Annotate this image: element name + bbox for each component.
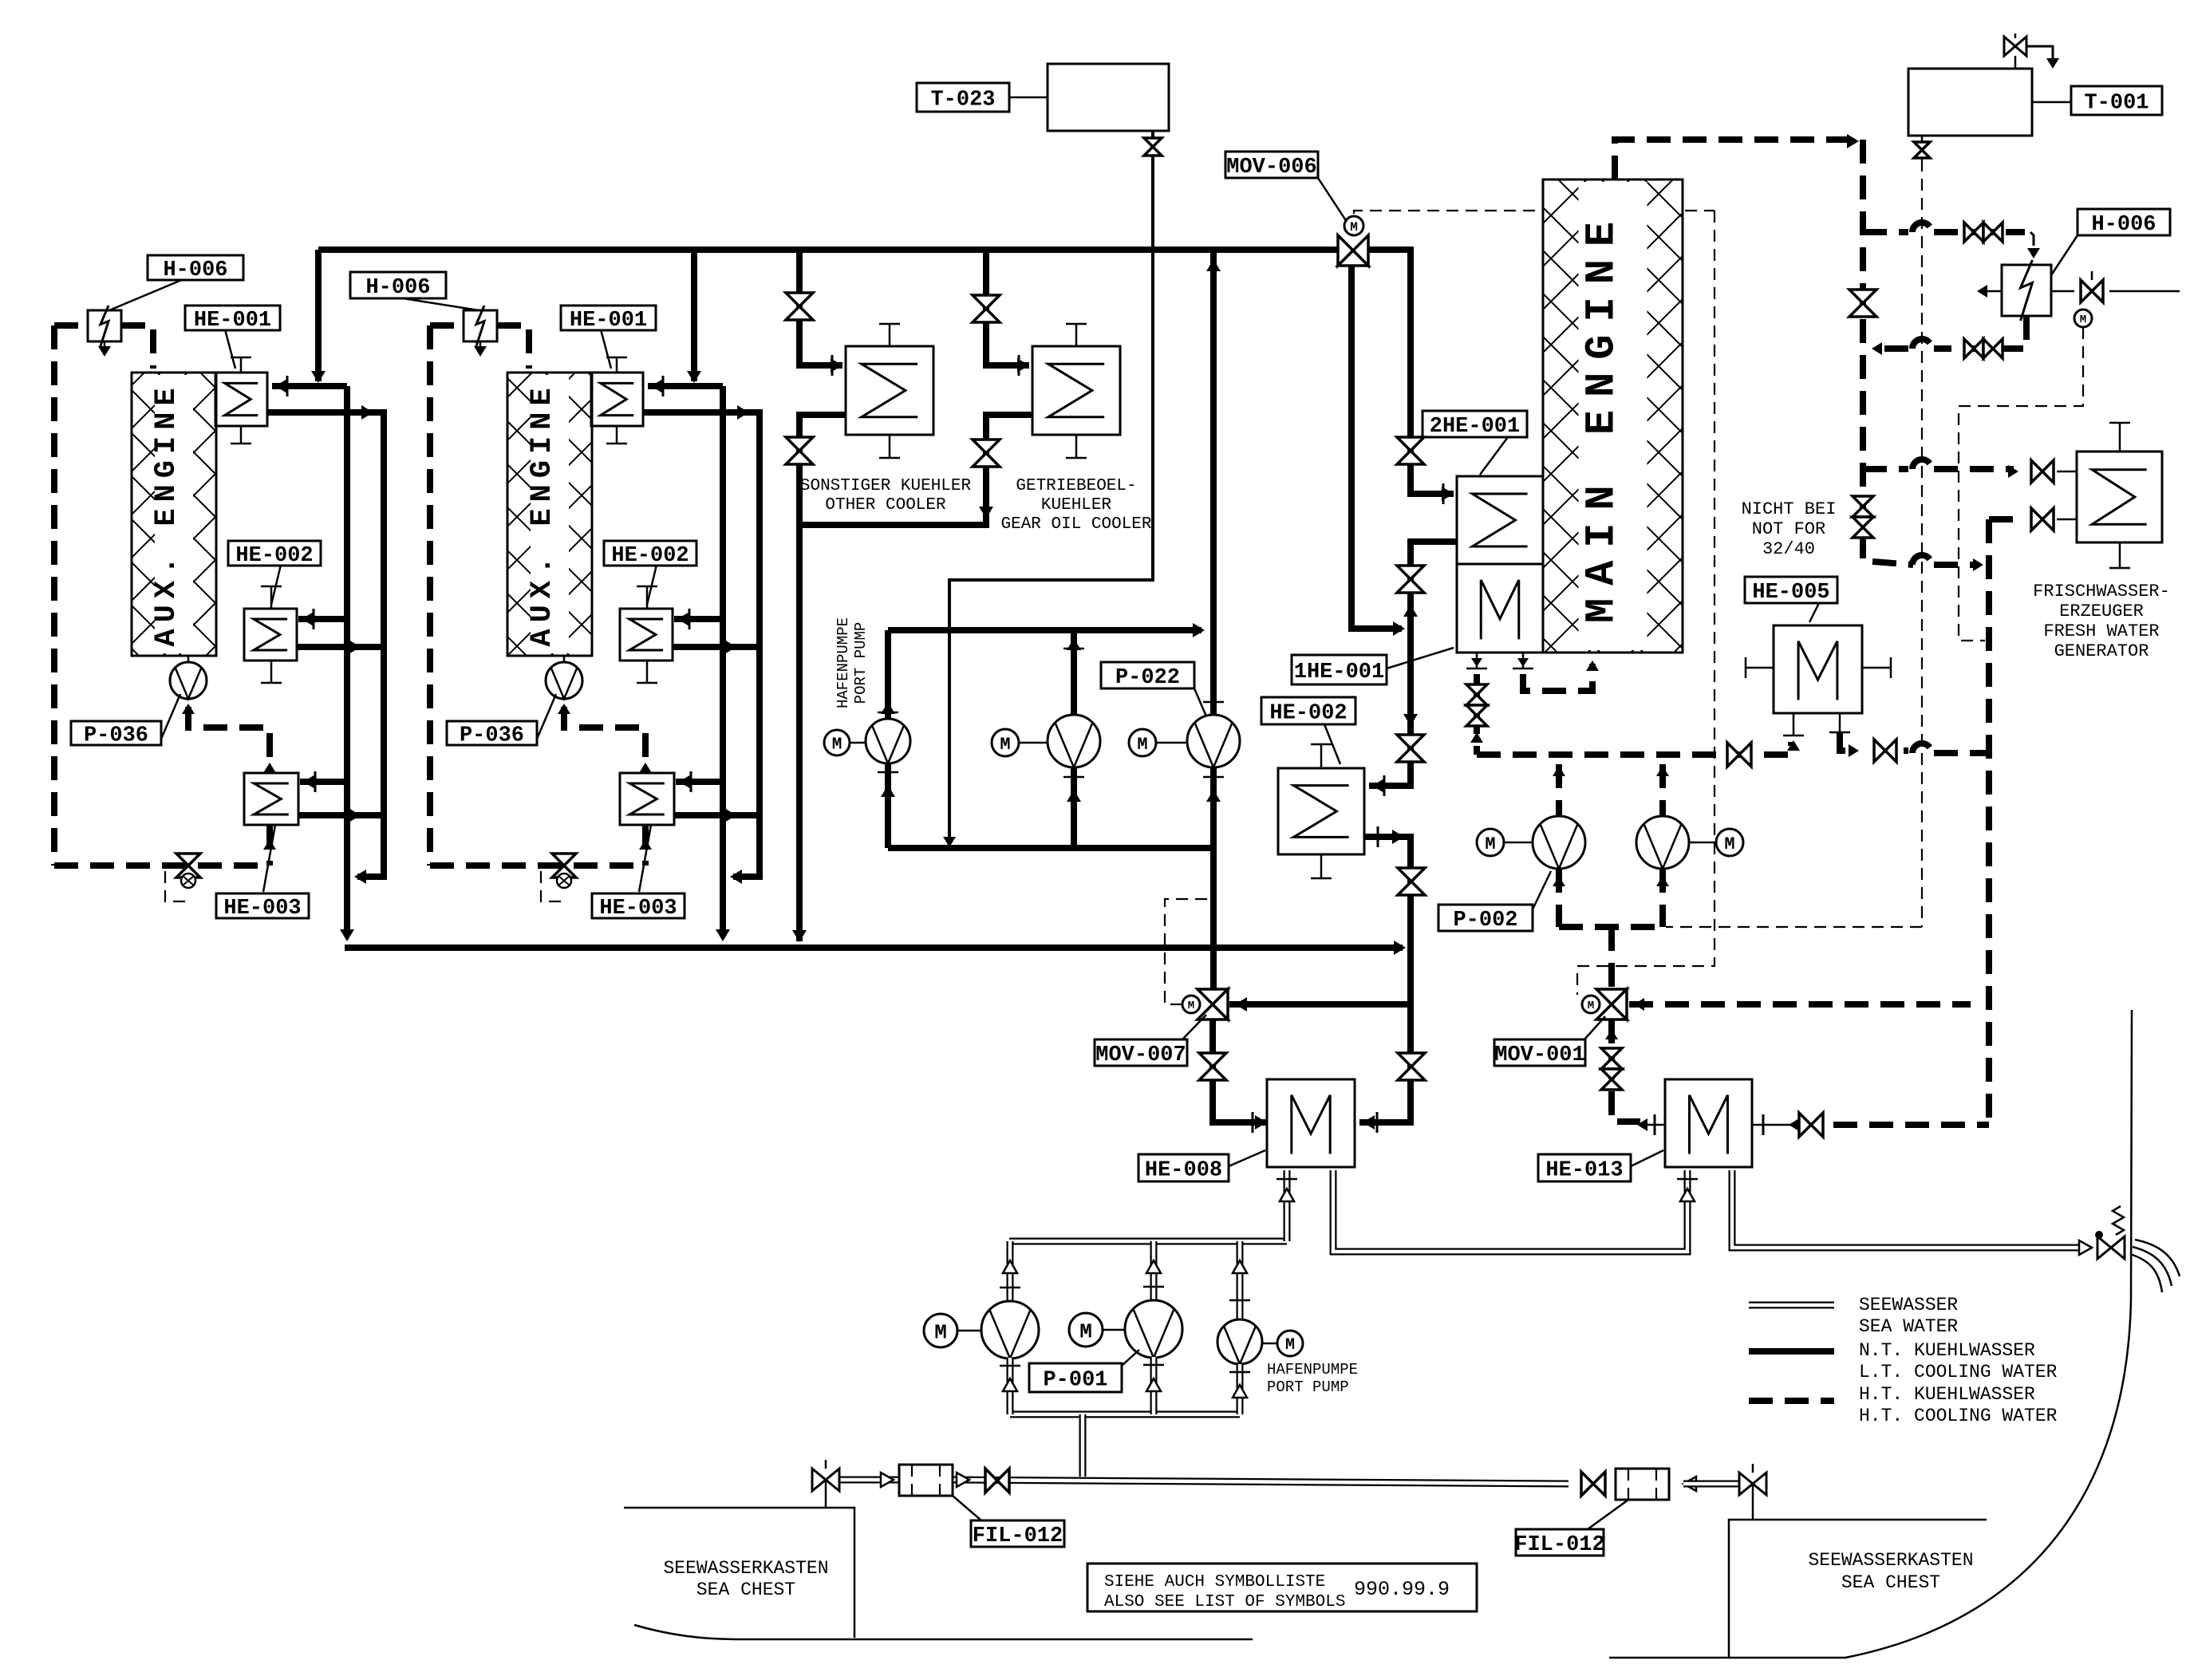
valve sea main left	[985, 1469, 997, 1493]
heat exchanger HE-002 (aux 2)	[620, 609, 673, 661]
label H-006 (right)	[2051, 235, 2078, 275]
label T-001	[2032, 101, 2071, 104]
svg-text:ERZEUGER: ERZEUGER	[2059, 601, 2144, 621]
valve under T-001	[1921, 136, 1924, 160]
wire sea water bottom main left	[839, 1477, 899, 1484]
wire H.T. FWG column x=2493	[1986, 519, 1992, 1125]
pump P-002 no.1	[1533, 816, 1585, 869]
wire HE-008 sea outlet to HE-013	[1333, 1170, 1687, 1252]
wire H.T. header down x=2335	[1863, 140, 1913, 565]
wire HE-008 sea inlet stub	[1284, 1170, 1291, 1241]
svg-text:P-001: P-001	[1043, 1369, 1107, 1393]
svg-text:GENERATOR: GENERATOR	[2054, 641, 2149, 661]
wire suction drop to sea main	[1079, 1414, 1087, 1477]
label H-006 (aux 1)	[109, 279, 183, 310]
valve on other-cooler outlet	[786, 437, 813, 451]
svg-text:MAIN ENGINE: MAIN ENGINE	[1579, 209, 1626, 623]
valves double under MOV-001	[1601, 1048, 1622, 1059]
svg-text:M: M	[1188, 1000, 1194, 1012]
wire P-022 suction	[1210, 767, 1217, 848]
cooler SONSTIGER KUEHLER / OTHER COOLER	[846, 346, 933, 435]
wire x=1768 down to HE-002	[1369, 629, 1411, 786]
svg-text:AUX. ENGINE: AUX. ENGINE	[526, 381, 559, 646]
svg-text:HE-002: HE-002	[1269, 702, 1347, 726]
wire HE-001 outlet aux2	[643, 412, 760, 877]
valve pair on H-006 feed	[1964, 223, 1974, 242]
svg-text:M: M	[1724, 834, 1734, 854]
svg-text:MOV-006: MOV-006	[1226, 156, 1316, 179]
svg-text:HE-003: HE-003	[599, 897, 677, 921]
wire P-022 discharge riser to main	[1210, 250, 1217, 715]
wire L.T. main return header y=1188	[345, 945, 1403, 951]
motor M port pump LT	[824, 730, 850, 755]
svg-text:MOV-007: MOV-007	[1095, 1043, 1186, 1067]
sea chest suction valve right	[1739, 1473, 1753, 1495]
wire T-001 make-up thin dashed	[1921, 160, 1923, 927]
svg-text:M: M	[1137, 735, 1147, 755]
label 2HE-001	[1480, 437, 1508, 475]
svg-text:P-022: P-022	[1115, 666, 1180, 690]
wire FWG lower valve feed	[1989, 516, 2014, 523]
wire MOV-001 down to HE-013	[1612, 1019, 1640, 1122]
wire other-cooler feed x=1002	[799, 250, 842, 365]
wire middle pump suction	[1071, 767, 1077, 848]
wire MOV-006 branch down	[1351, 266, 1402, 629]
svg-text:HE-013: HE-013	[1545, 1159, 1623, 1183]
wire HE-002 outlet aux2	[673, 644, 760, 650]
wire tank make-up drop x=1445	[949, 250, 1153, 843]
wire P-022 column down to MOV-007	[1210, 848, 1217, 989]
wire H.T. pump suction dashed aux2	[558, 704, 570, 714]
wire HE-002 inlet aux2	[674, 616, 723, 622]
wire P-002 discharge risers	[1556, 764, 1562, 816]
wire H.T. dashed loop left vertical AUX1	[54, 322, 86, 329]
pump P-001 port pump sea water	[1237, 1241, 1244, 1319]
heat exchanger HE-002 (L.T. central)	[1278, 768, 1364, 854]
svg-text:GETRIEBEOEL-: GETRIEBEOEL-	[1016, 477, 1136, 495]
legend sea water line	[1749, 1302, 1834, 1309]
label P-002	[1533, 871, 1551, 909]
svg-text:SEA WATER: SEA WATER	[1859, 1316, 1958, 1337]
svg-text:1HE-001: 1HE-001	[1294, 661, 1384, 684]
label P-022	[1194, 688, 1206, 716]
wire 2HE-001 inlet from main	[1411, 250, 1454, 494]
label HE-013	[1631, 1150, 1663, 1166]
valve x=1768 y=1101	[1398, 868, 1425, 881]
valve above 2HE-001 inlet	[1397, 437, 1424, 451]
label HE-001 (aux 1)	[225, 329, 235, 369]
svg-text:HAFENPUMPE: HAFENPUMPE	[1267, 1361, 1358, 1378]
motor M MOV-006	[1344, 216, 1363, 235]
svg-text:FRISCHWASSER-: FRISCHWASSER-	[2033, 582, 2170, 601]
svg-text:KUEHLER: KUEHLER	[1041, 496, 1112, 515]
svg-text:M: M	[1285, 1336, 1295, 1355]
label HE-008	[1229, 1150, 1265, 1166]
spring symbol overboard valve	[2113, 1206, 2124, 1235]
valve x=1768 y=1335	[1398, 1053, 1425, 1067]
heat exchanger HE-003 (aux 2)	[620, 773, 674, 825]
svg-text:SEA CHEST: SEA CHEST	[1841, 1572, 1940, 1593]
svg-text:MOV-001: MOV-001	[1494, 1043, 1584, 1067]
motor M middle pump	[992, 729, 1019, 756]
wire dashed stub near thermostat aux2	[541, 871, 561, 901]
note box SIEHE AUCH SYMBOLLISTE	[1087, 1564, 1477, 1611]
motor M MOV-001	[1582, 996, 1600, 1013]
wire port pump suction	[885, 763, 891, 848]
wire MOV-007 control dashed box	[1165, 899, 1209, 1004]
svg-text:H-006: H-006	[2091, 213, 2156, 237]
valve pair on H-006 return	[1964, 339, 1974, 358]
svg-text:PORT PUMP: PORT PUMP	[852, 622, 870, 704]
sea chest suction valve left	[826, 1469, 839, 1491]
wire HE-002 outlet down to MOV-007 level	[1364, 837, 1411, 1004]
sea chest left	[624, 1508, 854, 1638]
heat exchanger HE-005	[1774, 625, 1862, 713]
pump P-022	[1187, 715, 1240, 767]
svg-text:SEEWASSERKASTEN: SEEWASSERKASTEN	[663, 1558, 828, 1579]
pump P-002 no.2	[1636, 816, 1689, 869]
wire gear-cooler feed x=1236	[986, 250, 1029, 365]
motor M steam valve	[2074, 310, 2092, 327]
heat exchanger HE-001 (aux 2)	[591, 373, 643, 426]
label HE-001 (aux 2)	[601, 329, 611, 369]
wire L.T. supply drop x=870	[691, 250, 697, 381]
label P-001	[1122, 1350, 1139, 1366]
valves double on 1HE-001 drain	[1466, 684, 1487, 695]
valve under tank T-023	[1151, 131, 1154, 250]
wire H.T. 1HE-001 to engine bottom	[1523, 664, 1592, 691]
wire HE-001 inlet aux1	[272, 383, 347, 389]
wire H-006 steam side	[1979, 290, 2002, 293]
wire HE-013 left connection	[1640, 1124, 1665, 1126]
wire L.T. supply drop x=399	[315, 250, 322, 381]
svg-text:P-036: P-036	[84, 724, 148, 748]
label MOV-007	[1182, 1015, 1206, 1039]
wire control dashed x=2149	[1577, 211, 1715, 995]
heat exchanger 1HE-001	[1457, 564, 1543, 653]
wire gear-cooler outlet	[799, 415, 1032, 525]
wire H.T. 1HE-001 drain down	[1474, 674, 1480, 755]
wire control dashed from H-006 valve	[1959, 327, 2083, 641]
wire H.T. HE-003 bottom dashed aux2	[642, 825, 649, 866]
motor M P-002 no.2	[1716, 829, 1743, 856]
valve MOV-007	[1198, 989, 1228, 1004]
svg-text:HE-008: HE-008	[1145, 1159, 1222, 1183]
label FIL-012 left	[953, 1496, 981, 1520]
svg-text:PORT PUMP: PORT PUMP	[1267, 1378, 1349, 1396]
wire dashed manifold down to MOV-001	[1608, 927, 1615, 989]
wire HE-002 outlet aux1	[297, 644, 384, 650]
wire HE-001 inlet aux2	[648, 383, 723, 389]
wire dashed heater outlet to engine top AUX1	[121, 325, 153, 369]
wire dashed stub near thermostat aux1	[165, 871, 185, 901]
pump P-036 (aux 1)	[187, 656, 190, 663]
wire HE-013 right connection	[1752, 1124, 1792, 1126]
tank T-023	[1048, 64, 1169, 131]
svg-text:M: M	[2080, 314, 2086, 326]
svg-text:HE-001: HE-001	[194, 309, 271, 333]
svg-text:M: M	[1588, 1000, 1594, 1012]
wire P-001 suction manifold	[1010, 1411, 1240, 1418]
svg-text:SEEWASSERKASTEN: SEEWASSERKASTEN	[1808, 1550, 1973, 1571]
wire P-002 suction manifold dashed	[1556, 869, 1562, 927]
wire H.T. HE-003 bottom dashed aux1	[266, 825, 273, 866]
valve on 2HE-001 outlet leg	[1397, 566, 1424, 579]
svg-text:SEEWASSER: SEEWASSER	[1859, 1295, 1958, 1315]
wire dashed heater outlet to engine top AUX2	[497, 325, 529, 369]
svg-text:H.T. COOLING WATER: H.T. COOLING WATER	[1859, 1406, 2058, 1426]
wire HE-003 inlet aux1	[300, 779, 347, 785]
svg-text:H.T. KUEHLWASSER: H.T. KUEHLWASSER	[1859, 1384, 2035, 1405]
heat exchanger HE-002 (aux 1)	[244, 609, 297, 661]
svg-text:HE-002: HE-002	[611, 544, 689, 568]
wire L.T. main supply header y=313	[318, 246, 1337, 253]
wire H.T. return main aux2	[430, 862, 645, 869]
label MOV-006	[1318, 178, 1347, 222]
pump P-001 no.1 sea water	[1007, 1241, 1014, 1302]
wire H.T. return main aux1	[54, 862, 270, 869]
overboard spray curves	[2135, 1240, 2180, 1276]
svg-text:P-002: P-002	[1453, 909, 1517, 933]
svg-text:T-023: T-023	[930, 89, 995, 112]
label H-006 (aux 2)	[403, 298, 479, 310]
valve x=2335 y=380	[1849, 290, 1876, 303]
wire x=1768 down to HE-008	[1359, 1004, 1411, 1122]
wire middle pump discharge	[1071, 630, 1077, 715]
svg-text:M: M	[934, 1320, 947, 1344]
thermostatic valve (aux 1)	[176, 854, 200, 866]
wire L.T. pump suction manifold	[888, 845, 1213, 851]
motor M P-001 no.1	[924, 1314, 957, 1347]
wire H.T. x=2335 foot to FWG column	[1912, 555, 1932, 565]
relief valve on T-001	[2014, 56, 2017, 69]
legend L.T. line	[1749, 1348, 1834, 1355]
heater H-006 (right)	[2002, 265, 2051, 316]
svg-text:HE-005: HE-005	[1752, 581, 1829, 605]
label 1HE-001	[1387, 648, 1454, 668]
svg-text:M: M	[1485, 834, 1495, 854]
motor M port pump sea	[1277, 1331, 1303, 1356]
svg-text:SIEHE AUCH SYMBOLLISTE: SIEHE AUCH SYMBOLLISTE	[1104, 1573, 1325, 1591]
heater H-006 (aux engine 2)	[464, 310, 497, 341]
main engine block	[1543, 179, 1683, 653]
wire MOV-006 control dashed	[1354, 211, 1540, 214]
wire MOV-007 down to HE-008	[1213, 1019, 1267, 1122]
svg-text:FRESH WATER: FRESH WATER	[2043, 621, 2159, 641]
wire HE-002 inlet aux1	[298, 616, 347, 622]
wire H-006 right outlet return	[1934, 316, 2026, 349]
heat exchanger 2HE-001	[1457, 476, 1543, 564]
pump port pump (L.T.)	[866, 719, 910, 763]
valve x=1768 y=936	[1397, 735, 1424, 748]
wire other-cooler outlet	[799, 415, 846, 941]
svg-text:2HE-001: 2HE-001	[1430, 415, 1520, 439]
wire H.T. pump suction dashed aux1	[182, 704, 195, 714]
overboard discharge valve	[2097, 1236, 2111, 1259]
motor M P-022	[1129, 729, 1156, 756]
valve steam H-006	[2081, 280, 2092, 302]
svg-text:HE-002: HE-002	[235, 544, 313, 568]
label HE-003 (aux 1)	[263, 825, 275, 892]
valves double x=2335 y=648	[1853, 496, 1873, 507]
heat exchanger HE-003 (aux 1)	[244, 773, 298, 825]
svg-text:990.99.9: 990.99.9	[1354, 1578, 1450, 1601]
motor M P-001 no.2	[1069, 1313, 1103, 1347]
svg-text:P-036: P-036	[460, 724, 524, 748]
aux engine block 2	[507, 373, 592, 656]
motor M MOV-007	[1182, 996, 1200, 1013]
pump P-036 (aux 2)	[563, 656, 566, 663]
label MOV-001	[1584, 1016, 1605, 1039]
heat exchanger HE-001 (aux 1)	[215, 373, 267, 426]
label P-036 (aux 1)	[160, 694, 180, 743]
svg-text:GEAR OIL COOLER: GEAR OIL COOLER	[1000, 515, 1151, 534]
svg-text:AUX. ENGINE: AUX. ENGINE	[150, 381, 183, 646]
label T-023	[1009, 97, 1048, 99]
label HE-002 (central)	[1324, 724, 1340, 764]
svg-text:L.T. COOLING WATER: L.T. COOLING WATER	[1859, 1362, 2058, 1382]
fresh water generator	[2077, 452, 2162, 542]
svg-text:N.T. KUEHLWASSER: N.T. KUEHLWASSER	[1859, 1340, 2035, 1361]
svg-text:OTHER COOLER: OTHER COOLER	[825, 496, 946, 515]
svg-text:H-006: H-006	[163, 258, 227, 282]
svg-text:SONSTIGER KUEHLER: SONSTIGER KUEHLER	[800, 477, 972, 495]
valve MOV-001	[1596, 989, 1627, 1004]
label HE-005	[1809, 603, 1819, 622]
pump L.T. middle pump	[1048, 715, 1100, 767]
svg-text:NOT FOR: NOT FOR	[1752, 519, 1825, 539]
wire H.T. main engine top outlet	[1615, 140, 1855, 179]
valve on other-cooler feed	[786, 293, 813, 306]
svg-text:FIL-012: FIL-012	[973, 1524, 1063, 1548]
wire H.T. branch to heater H-006 right	[1863, 229, 1908, 235]
1HE-001 drain stubs	[1476, 653, 1478, 668]
heater H-006 (aux engine 1)	[88, 310, 121, 341]
valve on gear-cooler outlet	[973, 440, 1000, 453]
svg-text:H-006: H-006	[365, 276, 430, 300]
valve on H.T. main	[1727, 743, 1739, 767]
valve right of HE-013	[1799, 1113, 1811, 1137]
label HE-002 (aux 2)	[647, 565, 657, 605]
heat exchanger HE-008	[1267, 1079, 1355, 1167]
wire 2HE-001 outlet down	[1411, 542, 1457, 629]
svg-text:ALSO SEE LIST OF SYMBOLS: ALSO SEE LIST OF SYMBOLS	[1104, 1593, 1345, 1611]
valve sea main right	[1581, 1472, 1593, 1496]
svg-text:NICHT BEI: NICHT BEI	[1742, 499, 1837, 519]
wire sea water supply main	[1009, 1238, 1287, 1245]
wire H.T. HE-005 right to FWG column	[1840, 732, 1851, 751]
wire HE-001 outlet aux1	[267, 412, 384, 877]
valve FWG upper	[2031, 460, 2042, 483]
legend H.T. line	[1749, 1398, 1834, 1404]
wire inner supply vertical aux2	[720, 386, 726, 937]
wire HE-003 outlet aux2	[674, 812, 760, 818]
motor M P-002 no.1	[1477, 829, 1504, 856]
valve MOV-006	[1338, 235, 1353, 266]
svg-text:M: M	[1079, 1319, 1092, 1343]
svg-text:32/40: 32/40	[1762, 539, 1815, 559]
aux engine block 1	[132, 373, 216, 656]
wire H.T. dashed loop left vertical AUX2	[430, 322, 462, 329]
svg-text:SEA CHEST: SEA CHEST	[696, 1579, 795, 1600]
heat exchanger HE-013	[1665, 1079, 1752, 1167]
svg-text:HE-003: HE-003	[223, 897, 301, 921]
label FIL-012 right	[1588, 1500, 1628, 1529]
wire HE-003 inlet aux2	[676, 779, 723, 785]
wire sea water bottom main right	[1621, 1481, 1669, 1488]
valve FWG lower	[2031, 508, 2042, 530]
cooler GETRIEBEOEL-KUEHLER / GEAR OIL COOLER	[1032, 346, 1120, 435]
svg-text:M: M	[1000, 735, 1010, 755]
svg-text:T-001: T-001	[2084, 92, 2149, 116]
thermostatic valve (aux 2)	[552, 854, 576, 866]
svg-text:M: M	[832, 736, 842, 755]
wire H.T. main to HE-005 left stub	[1477, 742, 1791, 755]
wire port pump discharge	[888, 627, 1202, 633]
tank T-001	[1908, 69, 2032, 136]
pump P-001 no.2 sea water	[1150, 1241, 1158, 1301]
label HE-003 (aux 2)	[639, 825, 651, 892]
wire HE-003 outlet aux1	[298, 812, 384, 818]
svg-text:M: M	[1350, 220, 1358, 235]
wire inner supply vertical aux1	[344, 386, 350, 937]
wire H.T. branch to FWG upper	[1863, 466, 1908, 472]
wire MOV-001 feed from FWG column	[1629, 1001, 1971, 1008]
filter FIL-012 left	[899, 1465, 953, 1496]
valve on gear-cooler feed	[973, 295, 1000, 309]
filter FIL-012 right	[1616, 1469, 1669, 1500]
valve HE-005 right branch	[1874, 739, 1885, 762]
sea chest right	[1609, 1520, 1987, 1658]
svg-text:FIL-012: FIL-012	[1514, 1533, 1604, 1557]
svg-text:HAFENPUMPE: HAFENPUMPE	[835, 617, 852, 708]
wire HE-013 sea outlet overboard	[1732, 1170, 2087, 1248]
wire MOV-007 feed	[1229, 1001, 1411, 1008]
label HE-002 (aux 1)	[271, 565, 281, 605]
valve under MOV-007	[1199, 1053, 1226, 1067]
svg-text:HE-001: HE-001	[570, 309, 647, 333]
ship hull curve	[1729, 1010, 2132, 1658]
label P-036 (aux 2)	[535, 694, 556, 743]
